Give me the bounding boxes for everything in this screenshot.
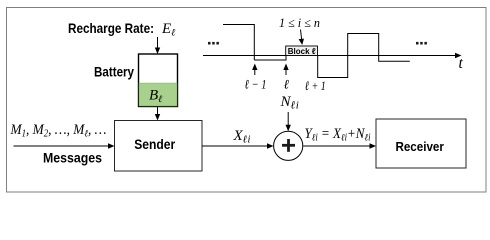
svg-text:Xℓi: Xℓi <box>233 128 251 146</box>
pointer arrow to l <box>283 64 288 76</box>
wire sender to adder <box>202 143 274 148</box>
svg-text:Receiver: Receiver <box>395 139 444 154</box>
adder circle <box>274 131 303 160</box>
time axis <box>203 53 462 58</box>
wire adder to receiver <box>303 143 376 148</box>
pointer arrow to block l <box>299 30 304 46</box>
battery box <box>139 54 178 107</box>
svg-text:Block ℓ: Block ℓ <box>288 46 316 56</box>
svg-text:Battery: Battery <box>94 64 134 80</box>
block Receiver <box>376 119 466 168</box>
block Sender <box>115 121 203 172</box>
svg-text:ℓ: ℓ <box>284 77 290 92</box>
label dots left <box>208 42 219 45</box>
adder plus sign <box>282 139 295 152</box>
wire battery to sender arrow <box>155 107 160 121</box>
block l highlight box <box>286 46 318 56</box>
svg-text:Eℓ: Eℓ <box>161 21 175 39</box>
outer frame <box>7 8 487 193</box>
waveform pulses after block l <box>318 34 410 78</box>
battery green level B_l <box>139 83 177 106</box>
svg-text:1 ≤ i ≤ n: 1 ≤ i ≤ n <box>279 16 320 30</box>
svg-text:Yℓi = Xℓi+Nℓi: Yℓi = Xℓi+Nℓi <box>305 126 371 144</box>
svg-text:ℓ + 1: ℓ + 1 <box>305 78 326 93</box>
svg-text:M1, M2, …, Mℓ, …: M1, M2, …, Mℓ, … <box>10 122 107 140</box>
svg-text:Sender: Sender <box>134 136 175 152</box>
wire recharge arrow into battery <box>155 37 160 54</box>
wire messages arrow into sender <box>14 143 115 148</box>
svg-text:Recharge Rate:: Recharge Rate: <box>68 20 154 36</box>
pointer arrow to l-1 <box>252 64 257 76</box>
waveform pulse before block l <box>223 25 254 61</box>
svg-text:Messages: Messages <box>43 151 102 166</box>
tick connector l-1 to l <box>254 46 286 60</box>
label dots right <box>416 42 427 45</box>
wire noise arrow into adder <box>286 112 291 131</box>
svg-text:ℓ − 1: ℓ − 1 <box>245 77 267 92</box>
svg-text:Nℓi: Nℓi <box>280 94 300 112</box>
svg-text:t: t <box>459 55 464 72</box>
